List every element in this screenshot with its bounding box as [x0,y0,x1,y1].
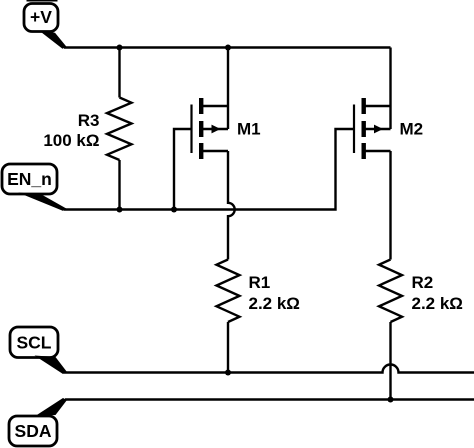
wire M1 column upper (rail to M1 source/bulk) [227,48,229,130]
node junction dot EN_n/R3 [117,207,123,213]
svg-text:2.2 kΩ: 2.2 kΩ [412,294,463,313]
transistor M2 [354,98,391,159]
wire M2 drain down to R2 [389,151,391,260]
clipped bar above +V box (image top edge) [27,0,58,2]
node junction dot SCL/R1 [225,370,231,376]
wire M1 drain down with hop over EN_n [228,151,235,260]
node junction dot rail/M1 [225,45,231,51]
node flag +V [24,4,67,49]
wire R2 bottom to SDA (crosses SCL) [389,322,391,400]
svg-text:EN_n: EN_n [7,169,52,189]
wire EN_n horizontal and up to M2 gate [64,129,354,210]
wire R3 bottom lead [118,160,120,210]
svg-text:2.2 kΩ: 2.2 kΩ [249,294,300,313]
wire M1 gate from EN_n [174,129,192,210]
wire SCL horizontal with hop over R2 column [64,365,474,373]
svg-text:100 kΩ: 100 kΩ [43,131,99,150]
wire top rail +V [64,46,391,48]
svg-text:SDA: SDA [15,421,52,441]
node flag SDA [9,398,67,446]
svg-text:M1: M1 [237,120,261,139]
svg-text:R2: R2 [412,273,434,292]
resistor R1 [217,260,240,323]
svg-text:R3: R3 [78,111,100,130]
node junction dot SDA/R2 [388,397,394,403]
node junction dot rail/R3 [117,45,123,51]
resistor R3 [107,98,132,161]
svg-text:M2: M2 [400,120,424,139]
svg-text:+V: +V [30,7,52,27]
node junction dot EN_n/M1 gate [171,207,177,213]
wire R3 top lead [118,48,120,98]
svg-text:R1: R1 [249,273,271,292]
svg-text:SCL: SCL [17,333,52,353]
wire R1 bottom to SCL [227,322,229,373]
wire M2 column upper (rail to M2 source/bulk) [389,48,391,130]
wire SDA horizontal [65,398,474,400]
node flag SCL [10,327,67,374]
transistor M1 [192,98,229,159]
node flag EN_n [2,164,67,211]
resistor R2 [379,260,402,323]
